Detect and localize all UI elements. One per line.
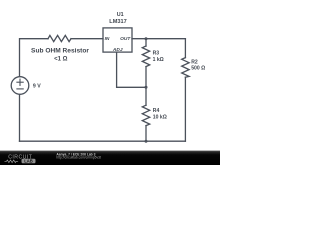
node junction dot bottom rail [145, 140, 148, 143]
node junction dot node A [145, 86, 148, 89]
svg-text:R2: R2 [191, 59, 198, 65]
CircuitLab logo resistor squiggle [5, 160, 19, 163]
wire node A to R4 [145, 87, 147, 105]
wire right rail R2 top lead [184, 39, 186, 58]
wire R4 bottom lead [145, 126, 147, 142]
svg-text:IN: IN [105, 36, 110, 42]
svg-text:1 kΩ: 1 kΩ [153, 57, 164, 63]
wire bottom rail [20, 140, 186, 142]
svg-text:ADJ: ADJ [112, 47, 123, 53]
resistor R2 [182, 58, 189, 78]
svg-text:OUT: OUT [120, 36, 131, 42]
svg-text:9 V: 9 V [33, 84, 41, 90]
svg-text:http://circuitlab.com/c/mnp5v3: http://circuitlab.com/c/mnp5v3t [56, 156, 101, 160]
watermark banner background [0, 151, 220, 166]
V1 plus sign [17, 79, 23, 89]
svg-text:R4: R4 [153, 108, 160, 114]
resistor R3 [142, 46, 149, 67]
svg-text:Sub OHM Resistor: Sub OHM Resistor [31, 47, 89, 54]
wire R1 to U1 IN pin [71, 38, 103, 40]
resistor R4 [142, 105, 149, 125]
svg-text:LAB: LAB [24, 159, 33, 164]
svg-text:10 kΩ: 10 kΩ [153, 114, 167, 120]
V1 minus sign [17, 88, 23, 90]
CircuitLab logo LAB badge [22, 159, 36, 164]
svg-text:<1 Ω: <1 Ω [54, 56, 68, 62]
svg-text:LM317: LM317 [109, 19, 126, 25]
node junction dot at OUT [145, 37, 148, 40]
wire R3 top lead [145, 39, 147, 46]
wire U1 ADJ to node A [117, 52, 146, 87]
wire V1 bottom lead [19, 94, 21, 141]
svg-text:U1: U1 [117, 12, 124, 18]
wire top-left from V1 to R1 [20, 39, 49, 77]
regulator IC U1 LM317 box [103, 28, 132, 52]
wire R3 to node A [145, 67, 147, 88]
svg-text:500 Ω: 500 Ω [191, 65, 205, 71]
voltage source V1 circle [11, 77, 29, 95]
wire R2 bottom lead [184, 77, 186, 141]
resistor R1 [48, 35, 71, 41]
svg-text:R3: R3 [153, 51, 160, 57]
wire U1 OUT to right rail [132, 38, 185, 40]
